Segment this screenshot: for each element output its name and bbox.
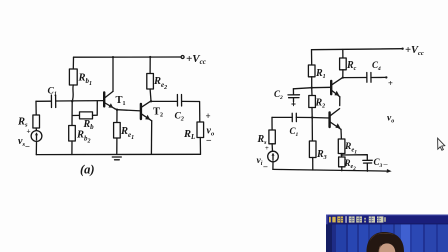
capacitor C1 (left circuit input) bbox=[51, 95, 55, 108]
wire: emitter node down to Re1 bbox=[116, 110, 118, 123]
wire: Re2 bottom to T2 collector node bbox=[149, 89, 152, 101]
wire: Re1 to Re junction bbox=[341, 154, 343, 158]
wire: T2 emitter down to rail bbox=[150, 121, 152, 155]
capacitor C3 bbox=[363, 160, 373, 171]
resistor Rb2 bbox=[69, 126, 76, 142]
label (a) bbox=[80, 163, 95, 177]
hair fringe over forehead bbox=[381, 240, 398, 252]
label Rs (right) bbox=[257, 134, 268, 146]
label + polarity of vi bbox=[265, 145, 269, 152]
title bar text stroke-gaps bbox=[338, 216, 381, 222]
resistor Re2 (left circuit) bbox=[147, 74, 154, 90]
label +Vcc (right circuit) bbox=[405, 45, 424, 57]
source vi (circle with arrow) bbox=[268, 151, 279, 162]
svg-text:(a): (a) bbox=[80, 163, 95, 177]
resistor R3 bbox=[309, 141, 316, 158]
label C3 bbox=[374, 157, 383, 169]
wire: Re junction to C3 bbox=[342, 155, 368, 161]
node: T2 collector / C2 tap bbox=[150, 100, 152, 102]
label Vo bbox=[387, 114, 394, 125]
label C4 bbox=[372, 60, 381, 72]
mouse cursor bbox=[438, 138, 445, 150]
resistor Rc bbox=[340, 58, 347, 70]
capacitor C2 (left circuit output) bbox=[177, 95, 181, 107]
wire: input wire through C1 bbox=[272, 116, 312, 118]
node: rail junction Re2 bbox=[149, 56, 151, 58]
label T2 bbox=[153, 107, 163, 119]
wire: Re2 top lead from rail bbox=[149, 57, 151, 74]
resistor Rs (left circuit) bbox=[33, 115, 40, 128]
label + polarity of vs bbox=[27, 129, 31, 136]
wire: +Vcc top rail (left circuit) bbox=[74, 56, 183, 58]
label Rb2 bbox=[76, 130, 91, 145]
resistor Re2 (right circuit) bbox=[339, 157, 345, 167]
capacitor C2 (bypass, right circuit) bbox=[288, 89, 300, 106]
capacitor C1 (right circuit input) bbox=[292, 113, 296, 121]
node: Re1/Re2 junction bbox=[341, 154, 343, 156]
svg-text:–: – bbox=[206, 135, 212, 145]
lecturer face (forehead peeking) bbox=[379, 243, 396, 252]
transistor T2 bbox=[141, 101, 152, 121]
wire: R1 bottom lead bbox=[311, 77, 313, 88]
title bar text: 15分|主讲：曲婕 (faked glyph strokes) bbox=[329, 216, 386, 223]
node: R1/R2/base junction bbox=[311, 87, 313, 89]
label RL bbox=[183, 129, 195, 141]
label Rs (left) bbox=[17, 117, 28, 129]
resistor Re1 (right circuit) bbox=[338, 139, 345, 154]
wire: +Vcc top rail (right circuit) bbox=[312, 49, 403, 50]
wire: C4 to output terminal bbox=[371, 76, 386, 78]
wire: vi to bottom rail bbox=[272, 162, 274, 170]
label C2 (left) bbox=[175, 112, 184, 123]
wire: R3 bottom lead to rail bbox=[312, 158, 314, 171]
wire: collector node to C2 bbox=[151, 100, 177, 102]
wire: Q1 emitter to Q2 collector bbox=[339, 97, 341, 106]
wire: Re2 bottom to rail bbox=[341, 167, 343, 171]
ground (left circuit) bbox=[112, 157, 121, 160]
wire: Rc top lead from rail bbox=[342, 50, 344, 59]
resistor Rb1 bbox=[69, 69, 77, 85]
wire: Rs to vs source bbox=[35, 128, 37, 131]
wire: C2 to RL corner bbox=[182, 101, 200, 122]
label + at output terminal bbox=[388, 78, 393, 88]
label - after C3 bbox=[383, 160, 389, 169]
label vs bbox=[18, 136, 30, 151]
wire: Rc bottom to collector node bbox=[342, 70, 344, 78]
node: R2/R3/base junction bbox=[311, 116, 313, 118]
label Rb bbox=[83, 119, 95, 131]
svg-text:+: + bbox=[265, 145, 269, 152]
label + vo - output bbox=[206, 111, 215, 145]
node: base divider junction bbox=[71, 100, 73, 102]
wire: Q2 emitter down to Re1 bbox=[340, 129, 342, 139]
wire: Rs to vi source bbox=[271, 144, 273, 151]
capacitor C4 bbox=[367, 73, 371, 83]
wire: RL bottom lead to rail bbox=[199, 138, 201, 155]
wire: Rb left lead bbox=[72, 114, 79, 116]
node: collector / C4 tap bbox=[342, 77, 344, 79]
label vi bbox=[257, 156, 268, 171]
label Re2 (left) bbox=[153, 76, 167, 91]
svg-text:+: + bbox=[388, 78, 393, 88]
wire: R1 top lead bbox=[311, 50, 313, 65]
label T1 bbox=[116, 95, 126, 107]
wire: R3 top lead bbox=[311, 118, 313, 142]
wire: Rb2 top lead bbox=[71, 101, 73, 125]
wire: corner down to Rs bbox=[35, 101, 37, 115]
wire: input base wire from C1 to T1 base bbox=[36, 100, 104, 103]
transistor Q2 (bottom, right circuit) bbox=[330, 109, 341, 130]
node: rail junction T1 collector bbox=[112, 56, 114, 58]
resistor R2 bbox=[309, 96, 316, 108]
label C1 (left) bbox=[48, 87, 57, 98]
resistor RL bbox=[197, 122, 204, 138]
wire: Rb1 bottom lead to base node bbox=[72, 85, 73, 101]
label Rb1 bbox=[78, 73, 93, 88]
wire: Rb1 top lead from rail bbox=[72, 57, 74, 69]
wire: Q2 base wire from divider bbox=[312, 117, 329, 120]
label +Vcc (left circuit) bbox=[186, 53, 206, 66]
wire: Rb right lead up to base wire bbox=[93, 101, 98, 115]
wire: bottom ground rail (left circuit) bbox=[36, 153, 200, 155]
wire: bottom ground rail (right circuit) with arrow end bbox=[273, 169, 392, 173]
wire: corner down to Rs (right) bbox=[271, 117, 273, 130]
svg-text:–: – bbox=[25, 142, 30, 151]
label Re1 (left) bbox=[120, 126, 134, 141]
source vs (circle with arrow) bbox=[31, 131, 42, 142]
wire: collector node to C4 bbox=[343, 77, 367, 79]
node: Vcc terminal (right circuit) bbox=[401, 48, 403, 50]
wire: T1 emitter to T2 base bbox=[117, 110, 141, 111]
lecturer hair bbox=[367, 232, 405, 252]
label C2 (right) bbox=[274, 89, 283, 101]
label R3 bbox=[316, 149, 327, 161]
label R2 bbox=[315, 98, 326, 110]
transistor T1 bbox=[104, 57, 114, 109]
inset background: studio blue curtain bbox=[326, 215, 448, 252]
label Re2 (right) bbox=[344, 158, 357, 172]
svg-text:–: – bbox=[263, 162, 268, 171]
node: T1 emitter junction bbox=[115, 109, 119, 111]
label R1 bbox=[315, 68, 326, 80]
svg-text:+: + bbox=[27, 129, 31, 136]
label Re1 (right) bbox=[344, 142, 357, 155]
node: Vcc terminal (left circuit) bbox=[181, 56, 184, 59]
resistor Re1 (left circuit) bbox=[114, 123, 121, 139]
node: output terminal bbox=[385, 76, 387, 78]
resistor Rs (right circuit) bbox=[269, 130, 275, 144]
resistor Rb (horizontal) bbox=[80, 112, 93, 119]
wire: R2 top lead bbox=[311, 88, 313, 96]
wire: Rb2 bottom lead to rail bbox=[71, 141, 73, 155]
wire: Q1 base wire bbox=[293, 87, 331, 89]
title bar of inset bbox=[326, 215, 448, 225]
transistor Q1 (top, right circuit) bbox=[331, 78, 342, 97]
wire: Re1 bottom lead bbox=[116, 138, 118, 154]
wire: R2 bottom lead bbox=[311, 108, 313, 118]
wire: vs to bottom rail bbox=[35, 141, 37, 154]
resistor R1 bbox=[308, 65, 315, 77]
label Rc bbox=[346, 60, 357, 72]
label C1 (right) bbox=[290, 126, 299, 138]
svg-text:+: + bbox=[206, 111, 211, 121]
